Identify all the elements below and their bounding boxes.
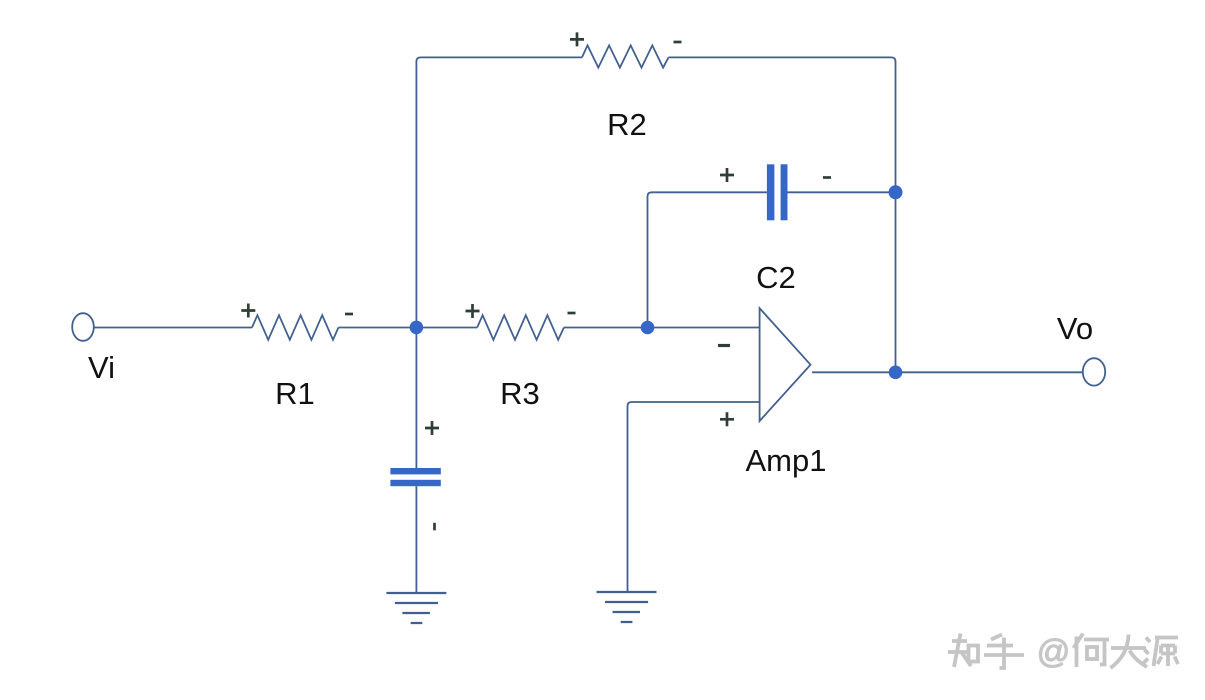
- node C junction dot: [889, 185, 903, 199]
- wire op-amp noninverting input to ground: [628, 402, 760, 592]
- R1 minus mark: [345, 313, 353, 316]
- C1 plus mark: [425, 421, 439, 435]
- wire C2 to node C: [787, 191, 895, 193]
- resistor R2: [582, 45, 669, 67]
- C2 plus mark: [720, 168, 734, 182]
- C2 minus mark: [823, 176, 831, 179]
- svg-text:R1: R1: [275, 376, 315, 411]
- watermark zhihu: [948, 634, 1178, 669]
- wire input Vi to R1: [94, 327, 252, 329]
- C1 minus mark: [433, 523, 436, 531]
- svg-text:Vi: Vi: [88, 350, 115, 385]
- node A junction dot: [410, 321, 424, 335]
- node B junction dot: [641, 321, 655, 335]
- resistor R1: [252, 315, 338, 340]
- svg-text:@: @: [1037, 633, 1071, 670]
- capacitor C2: [767, 164, 775, 220]
- node D output junction dot: [889, 366, 903, 380]
- R2 minus mark: [674, 41, 682, 44]
- svg-text:Amp1: Amp1: [746, 443, 827, 478]
- svg-text:R3: R3: [500, 376, 540, 411]
- terminal Vo: [1083, 358, 1105, 385]
- op-amp Amp1: [760, 308, 811, 421]
- wire node A up and top to R2: [416, 57, 582, 468]
- svg-text:Vo: Vo: [1057, 311, 1093, 346]
- wire R1 to node A to R3: [338, 327, 477, 329]
- ground under C1: [386, 593, 446, 623]
- wire node B up to C2: [648, 192, 767, 327]
- resistor R3: [477, 315, 564, 340]
- R3 minus mark: [568, 312, 576, 315]
- svg-text:R2: R2: [607, 107, 647, 142]
- wire C1 to ground: [415, 486, 417, 593]
- wire R2 right and down to output node: [669, 57, 896, 372]
- capacitor C1: [390, 468, 440, 474]
- Amp1 inverting input minus mark: [718, 344, 730, 347]
- wire op-amp output to Vo: [812, 371, 1083, 373]
- R2 plus mark: [570, 32, 584, 46]
- ground under op-amp noninverting input: [597, 592, 657, 622]
- Amp1 noninverting input plus mark: [720, 412, 734, 426]
- terminal Vi: [72, 313, 94, 341]
- wire R3 to node B to op-amp inverting input: [564, 327, 760, 329]
- R1 plus mark: [241, 304, 255, 318]
- R3 plus mark: [466, 304, 480, 318]
- svg-text:C2: C2: [756, 260, 796, 295]
